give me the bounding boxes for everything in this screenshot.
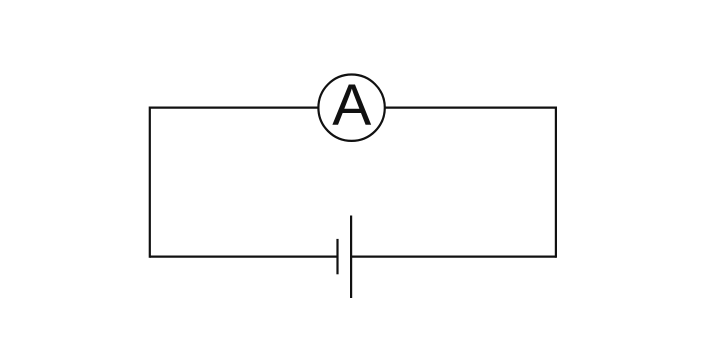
wire: [150, 256, 338, 258]
battery B1: [338, 216, 352, 299]
wire: [351, 256, 556, 258]
wire: [150, 106, 319, 108]
wire: [385, 106, 556, 108]
wire: [555, 107, 557, 258]
ammeter A1: [318, 73, 384, 141]
svg-text:A: A: [332, 73, 371, 138]
wire: [149, 107, 151, 258]
